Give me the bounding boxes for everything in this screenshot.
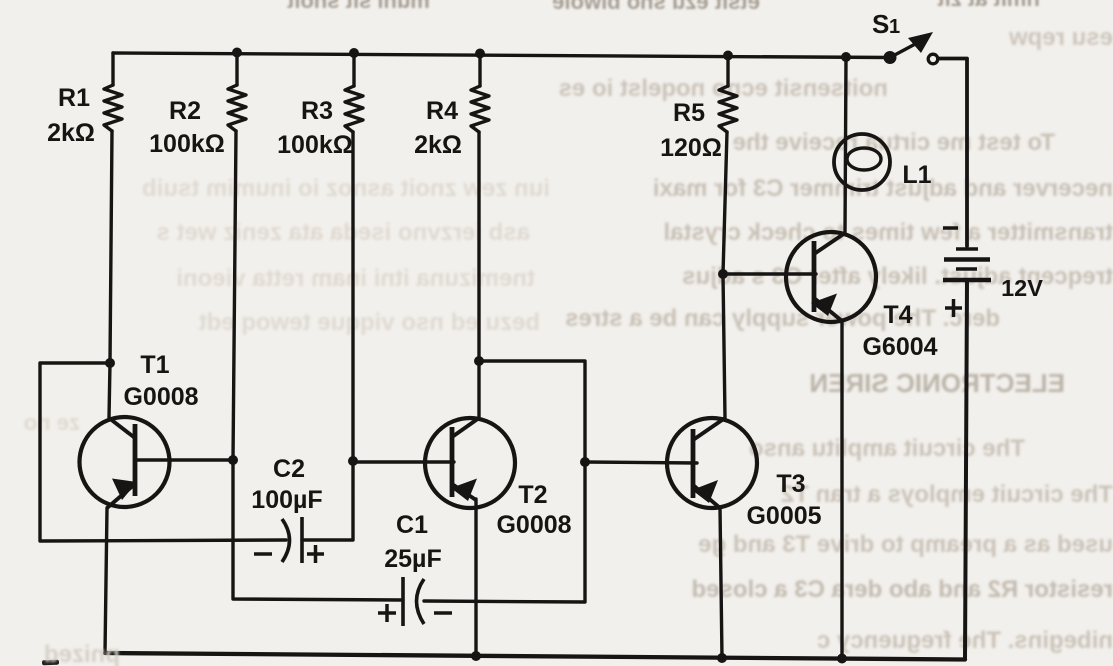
- svg-text:tnemizuna itni inam retta vieo: tnemizuna itni inam retta vieoni: [176, 265, 535, 292]
- bottom edge cut-off mark: [42, 660, 59, 666]
- svg-text:C2: C2: [273, 455, 305, 483]
- wire: T2 emitter down: [474, 499, 477, 656]
- svg-text:To test me cirtua receive the: To test me cirtua receive the: [733, 129, 1055, 156]
- svg-text:L1: L1: [902, 161, 931, 189]
- battery plus: [945, 306, 962, 310]
- faint bleedthrough text (mirrored show-through), top cut line: [286, 0, 1040, 14]
- svg-text:esu repw: esu repw: [1009, 24, 1113, 51]
- svg-text:T1: T1: [140, 351, 169, 379]
- wire: R5 top lead: [726, 56, 729, 87]
- svg-text:1: 1: [889, 16, 900, 38]
- svg-text:R4: R4: [426, 97, 458, 125]
- svg-text:resistor R2 and abo dera C3 a: resistor R2 and abo dera C3 a closed: [692, 576, 1113, 603]
- wire: T1 emitter down to bottom rail: [105, 508, 107, 653]
- lamp L1: [834, 134, 890, 190]
- svg-text:derc. The power supply can be: derc. The power supply can be a stres: [565, 305, 1000, 332]
- node T2 base R3: [348, 456, 358, 466]
- node T4 base R5: [718, 269, 728, 279]
- resistor R2: [228, 85, 246, 131]
- svg-text:100µF: 100µF: [251, 486, 322, 514]
- wire: T4 base lead: [723, 272, 816, 275]
- node R3 top: [349, 48, 359, 58]
- wire: R1 bottom to T1 collector: [109, 131, 112, 418]
- svg-text:100kΩ: 100kΩ: [149, 130, 225, 158]
- wire: R3 top lead: [352, 53, 355, 86]
- label S1: [872, 9, 900, 39]
- switch S1: [890, 32, 938, 64]
- wire: battery bottom to bottom rail: [965, 282, 967, 659]
- svg-text:ELECTRONIC SIREN: ELECTRONIC SIREN: [809, 368, 1065, 398]
- wire: R3 bottom through T2 base node to C2: [302, 132, 353, 540]
- wire: top rail: [113, 53, 890, 58]
- svg-text:G0008: G0008: [123, 383, 198, 411]
- svg-text:transmitter a few times to che: transmitter a few times to check crystal: [663, 219, 1113, 246]
- C1 plus: [378, 611, 396, 615]
- svg-text:etsit ezu sno biwole: etsit ezu sno biwole: [552, 0, 760, 14]
- svg-text:treqcent adjust. likely after: treqcent adjust. likely after C3 s adjus: [682, 263, 1113, 290]
- wire: bottom rail: [105, 653, 965, 660]
- svg-text:2kΩ: 2kΩ: [414, 131, 462, 159]
- capacitor C1: [403, 577, 424, 626]
- svg-text:C1: C1: [396, 511, 428, 539]
- svg-text:pnized: pnized: [44, 641, 120, 666]
- C2 plus: [307, 552, 324, 556]
- svg-text:asb ierzvno iseda ata zeniz we: asb ierzvno iseda ata zeniz wet s: [157, 219, 530, 246]
- wire: feedback loop from C2 to R1/T1 node: [40, 363, 286, 541]
- node R2 top: [232, 48, 242, 58]
- wire: R2 bottom down to C1 corner: [233, 131, 403, 600]
- svg-text:nmit at zit: nmit at zit: [937, 0, 1040, 11]
- node R4 top: [475, 49, 485, 59]
- node T3 base: [580, 457, 590, 467]
- svg-text:12V: 12V: [1001, 275, 1043, 301]
- wire: T1 base to R2: [135, 458, 233, 461]
- C2 minus: [254, 552, 272, 556]
- node T2 emitter bottom: [471, 651, 481, 661]
- node switch pole: [884, 51, 897, 64]
- node lamp top: [841, 52, 851, 62]
- svg-text:used as a preamp to drive T3 a: used as a preamp to drive T3 and ge: [698, 531, 1113, 558]
- capacitor C2: [282, 517, 302, 563]
- svg-text:25µF: 25µF: [384, 545, 441, 573]
- svg-text:T2: T2: [518, 481, 547, 509]
- wire: C1 right to T3 base node and up to R4 node: [424, 361, 585, 602]
- svg-text:muni sit snoit: muni sit snoit: [286, 0, 430, 13]
- svg-text:S: S: [872, 9, 889, 39]
- wire: R1 top lead: [111, 53, 114, 85]
- resistor R4: [471, 86, 489, 132]
- node T3 emitter bottom: [717, 653, 727, 663]
- svg-text:bezu ed nso viqque tewoq edt: bezu ed nso viqque tewoq edt: [199, 309, 540, 336]
- battery minus: [943, 226, 958, 230]
- svg-text:R1: R1: [58, 84, 90, 112]
- svg-text:The circuit amplitu anso: The circuit amplitu anso: [749, 435, 1025, 462]
- svg-text:The circuit employs a tran T2: The circuit employs a tran T2: [781, 481, 1113, 508]
- battery B1: [943, 249, 991, 280]
- wire: switch to battery top: [938, 59, 967, 247]
- wire: R5 bottom through T4 base node to T3 collector: [723, 132, 727, 418]
- svg-text:G0005: G0005: [746, 502, 821, 530]
- svg-text:R3: R3: [301, 97, 333, 125]
- svg-text:120Ω: 120Ω: [660, 134, 722, 162]
- wire: T2 base lead: [353, 460, 454, 463]
- wire: T4 emitter down: [840, 321, 843, 658]
- node feedback R1: [105, 358, 115, 368]
- node T4 emitter bottom: [837, 654, 847, 664]
- svg-text:R5: R5: [673, 99, 705, 127]
- svg-text:2kΩ: 2kΩ: [47, 119, 95, 147]
- node T1 base R2: [228, 455, 238, 465]
- node R5 top: [723, 51, 733, 61]
- svg-text:G6004: G6004: [862, 333, 937, 361]
- resistor R1: [104, 85, 122, 131]
- polarity marks: [254, 228, 962, 622]
- transistor T4: [786, 232, 876, 322]
- wire: R4 bottom to T2 collector node: [477, 132, 480, 417]
- transistor T1: [80, 417, 170, 508]
- transistor T2: [425, 418, 515, 508]
- wire: T3 base lead: [585, 462, 697, 463]
- faint bleedthrough paragraph right/middle (mirrored): [559, 24, 1113, 654]
- wire: T4 collector up through lamp to top rail: [845, 58, 846, 234]
- svg-text:R2: R2: [169, 97, 201, 125]
- node T2 collector R4: [474, 356, 484, 366]
- wire: R4 top lead: [478, 54, 481, 87]
- faint bleedthrough left zone (mirrored): [24, 175, 550, 435]
- faint bottom-left mirrored fragment: [44, 641, 120, 666]
- C1 minus: [434, 611, 452, 615]
- svg-text:T4: T4: [883, 301, 912, 329]
- wire: T3 emitter down: [720, 508, 722, 658]
- transistor T3: [667, 418, 757, 508]
- svg-text:100kΩ: 100kΩ: [277, 131, 353, 159]
- svg-text:iun zew znoit asnoz io inumim: iun zew znoit asnoz io inumim tsuib: [142, 175, 550, 202]
- svg-text:ze no: ze no: [24, 410, 80, 435]
- resistor R5: [719, 86, 737, 132]
- wire: R2 top lead: [235, 53, 238, 86]
- svg-text:T3: T3: [776, 470, 805, 498]
- resistor R3: [345, 86, 363, 132]
- svg-text:G0008: G0008: [496, 511, 571, 539]
